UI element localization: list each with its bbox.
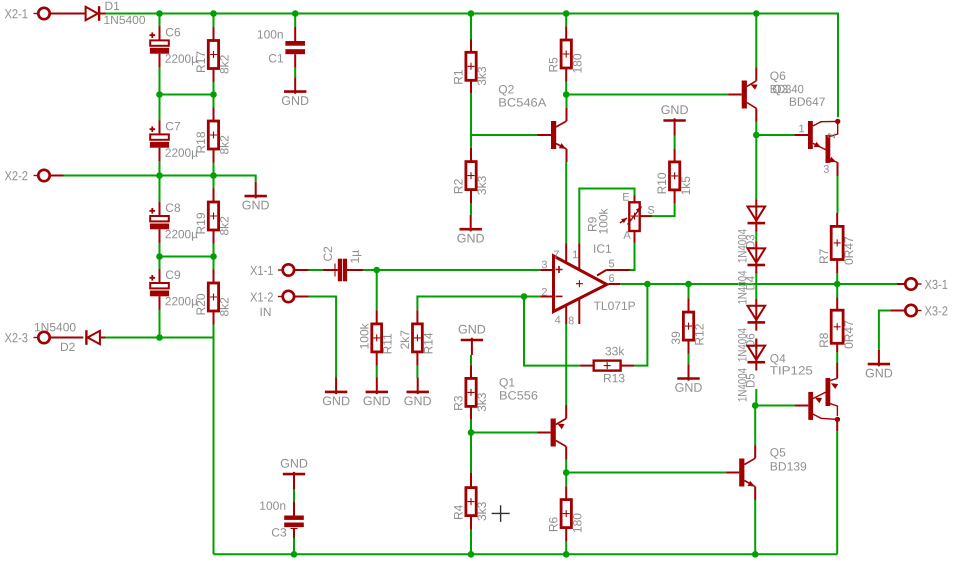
svg-text:3k3: 3k3 [475, 66, 489, 86]
wire X2-3 net [106, 337, 214, 339]
svg-text:R3: R3 [452, 395, 466, 411]
pin lead R2 bot [470, 190, 472, 204]
svg-text:GND: GND [661, 103, 689, 117]
pin lead R6 top [565, 486, 567, 500]
wire rail row2 [160, 94, 214, 96]
pin lead R17 top [213, 27, 215, 41]
wire C3 gnd lead [293, 489, 295, 502]
svg-text:R2: R2 [452, 178, 466, 194]
pin lead Q1 collector [565, 447, 567, 460]
junction [685, 281, 692, 288]
connector pad X1-2 [283, 291, 294, 302]
svg-text:GND: GND [458, 322, 486, 336]
wire R17 top [213, 14, 215, 28]
ground GND (R2) [470, 215, 472, 232]
svg-text:R5: R5 [547, 57, 561, 73]
connector pad X2-2 [38, 170, 49, 181]
wire C6 top [159, 14, 161, 27]
diode D4 [755, 241, 757, 273]
svg-text:BD647: BD647 [789, 95, 826, 109]
resistor R3 [466, 378, 476, 406]
svg-text:R8: R8 [817, 332, 831, 348]
svg-text:R20: R20 [194, 293, 208, 315]
pin lead R10 bot [674, 190, 676, 204]
svg-text:6: 6 [608, 273, 614, 285]
svg-text:2: 2 [541, 287, 547, 299]
junction [156, 172, 163, 179]
wire Q5 emitter down [754, 500, 756, 554]
pin lead C3 top [293, 475, 295, 489]
transistor Q5 (BD139) [739, 459, 744, 487]
svg-text:D5: D5 [746, 373, 758, 388]
diode D6 [755, 299, 757, 331]
resistor R11 [372, 324, 382, 352]
svg-text:X2-2: X2-2 [4, 168, 28, 183]
capacitor C7 [159, 120, 161, 137]
pin lead Q6 collector [755, 108, 757, 121]
wire output net [620, 283, 897, 285]
pin lead R4 bot [470, 516, 472, 530]
wire C7 bottom [159, 161, 161, 175]
svg-text:R13: R13 [603, 371, 625, 385]
wire R11 to GND [376, 366, 378, 379]
wire D6-D5 [755, 339, 757, 350]
svg-text:1N5400: 1N5400 [103, 13, 145, 27]
resistor R17 [208, 41, 218, 69]
svg-text:GND: GND [865, 366, 893, 380]
svg-text:GND: GND [280, 457, 308, 471]
svg-text:8k2: 8k2 [218, 54, 232, 74]
ground GND (R3) [471, 338, 473, 355]
wire C6 bottom [159, 67, 161, 94]
wire X1-1 to C2 [309, 269, 323, 271]
svg-text:A: A [623, 230, 631, 242]
junction [644, 281, 651, 288]
pin lead Q2 collector [566, 108, 568, 121]
pin lead R9 top [634, 196, 636, 203]
pin lead IC1 pin2 [540, 296, 552, 298]
svg-text:X1-2: X1-2 [250, 290, 274, 305]
wire X2-2 rail [64, 176, 256, 182]
wire R9 wiper to R10 [652, 203, 675, 216]
svg-text:BD139: BD139 [770, 460, 807, 474]
wire R5 top [565, 14, 567, 27]
resistor R6 [561, 500, 571, 528]
wire Q2 collector [566, 95, 568, 109]
pin lead R12 top [688, 298, 690, 312]
pin lead IC1 pin5 [597, 270, 630, 276]
svg-text:GND: GND [457, 231, 485, 245]
diode D3 [755, 200, 757, 232]
svg-text:GND: GND [363, 394, 391, 408]
pin lead X1-1 [295, 269, 309, 271]
ground GND (X3-2) [878, 350, 880, 367]
pin lead R20 bot [213, 311, 215, 325]
wire C2 to input node [363, 269, 376, 271]
svg-text:GND: GND [675, 381, 703, 395]
transistor Q4 (TIP125 darlington) [808, 392, 813, 420]
svg-text:Q5: Q5 [770, 446, 786, 460]
junction [156, 10, 163, 17]
junction [156, 253, 163, 260]
junction [563, 551, 570, 558]
wire D3-D4 [755, 230, 757, 241]
junction [210, 253, 217, 260]
capacitor C2 [338, 259, 342, 282]
junction [834, 281, 841, 288]
wire R19-R20 [213, 244, 215, 270]
pin lead C3 gnd2 [293, 502, 295, 516]
ground GND (R10) [674, 118, 676, 135]
pin lead Q2 base [538, 134, 552, 136]
svg-text:C3: C3 [271, 526, 287, 540]
svg-text:BC556: BC556 [499, 389, 538, 403]
wire C9 top [159, 257, 161, 270]
wire diode chain 1 [755, 135, 757, 200]
pin lead Q4 emitter [836, 363, 838, 378]
wire input node to pin3 [377, 269, 541, 271]
junction [752, 402, 759, 409]
wire D5 to Q4 node [755, 389, 757, 406]
pin lead R18 top [213, 108, 215, 122]
wire R14 to GND [416, 366, 418, 379]
svg-text:D4: D4 [746, 275, 758, 290]
junction [373, 267, 380, 274]
svg-text:R11: R11 [381, 333, 395, 354]
pin lead R5 top [565, 27, 567, 41]
pin lead R9 bot [634, 231, 636, 243]
wire R17-R18 [213, 82, 215, 108]
svg-text:R14: R14 [421, 332, 435, 354]
pin lead R12 bot [688, 340, 690, 354]
wire C1 top [294, 14, 296, 28]
svg-text:R12: R12 [693, 323, 707, 345]
svg-text:3k3: 3k3 [475, 392, 489, 412]
wire R6 bottom [565, 541, 567, 554]
svg-text:X2-3: X2-3 [4, 330, 28, 345]
wire R7 to output node [836, 273, 838, 284]
wire IC1 pin4 to Q1 emitter [565, 324, 567, 405]
svg-text:8k2: 8k2 [218, 297, 232, 317]
svg-text:100k: 100k [357, 322, 371, 349]
svg-text:R1: R1 [452, 69, 466, 85]
svg-text:TL071P: TL071P [594, 299, 636, 313]
pin lead R1 bot [470, 80, 472, 94]
pin lead C2 right [347, 269, 363, 271]
pin lead R1 top [470, 40, 472, 54]
resistor R18 [208, 121, 218, 149]
wire X1-2 to GND [309, 297, 337, 379]
pin lead D2 right [100, 337, 106, 339]
pin lead IC1 pin3 [540, 269, 552, 271]
capacitor C8 [159, 202, 161, 220]
svg-text:3k3: 3k3 [475, 175, 489, 195]
wire -V bottom rail [214, 553, 838, 555]
wire node to Q6 base [566, 94, 728, 96]
connector pad X2-3 [38, 332, 49, 343]
wire R10 GND lead [674, 136, 676, 150]
junction [156, 91, 163, 98]
junction [468, 10, 475, 17]
svg-text:R19: R19 [194, 212, 208, 234]
pin lead R14 bot [416, 352, 418, 366]
svg-text:C7: C7 [165, 119, 181, 133]
wire Q3 emitter to R7 [837, 176, 839, 213]
pin lead R2 top [470, 148, 472, 162]
wire R12 to GND [688, 354, 690, 364]
svg-text:IN: IN [259, 305, 271, 319]
svg-text:3k3: 3k3 [475, 501, 489, 521]
pin lead R4 top [470, 473, 472, 488]
transistor Q1 (BC556) [551, 419, 556, 447]
pin lead R8 top [836, 297, 838, 310]
capacitor C3 [284, 516, 304, 520]
wire output node to R8 [836, 284, 838, 297]
ground GND (X2-2) [255, 182, 257, 199]
resistor R14 [413, 324, 423, 352]
svg-text:D1: D1 [104, 0, 120, 13]
wire Q4 collector to rail [836, 431, 838, 554]
trimpot R9 [629, 202, 639, 231]
transistor Q2 [551, 121, 556, 149]
svg-text:GND: GND [242, 198, 270, 212]
pin lead X2-1 to D1 [50, 13, 85, 15]
pin lead R19 bot [213, 230, 215, 244]
svg-text:X2-1: X2-1 [4, 6, 28, 21]
ground GND (R12) [688, 364, 690, 381]
wire R3 bot green [470, 419, 472, 432]
wire C1 to GND [294, 68, 296, 78]
wire node to Q4 base [755, 405, 795, 407]
pin lead R19 top [213, 189, 215, 203]
pin lead Q5 collector [754, 446, 756, 459]
svg-text:1k5: 1k5 [679, 176, 693, 196]
svg-text:C1: C1 [268, 51, 284, 65]
resistor R13 [594, 361, 621, 371]
diode D1 [86, 7, 98, 20]
transistor Q6 (BD340) [742, 81, 747, 109]
wire C8 bottom [159, 243, 161, 257]
svg-text:100n: 100n [259, 499, 286, 513]
ground GND (X1-2) [335, 378, 337, 395]
diode D5 [755, 339, 757, 371]
svg-text:33k: 33k [605, 344, 625, 358]
junction [468, 551, 475, 558]
svg-text:8k2: 8k2 [218, 135, 232, 155]
ground GND (R14) [417, 378, 419, 395]
wire node to Q5 base [566, 472, 726, 474]
svg-text:D2: D2 [60, 340, 76, 354]
junction [563, 469, 570, 476]
wire X3-2 to GND [879, 311, 891, 350]
wire base node to Q2 [471, 134, 538, 136]
wire R2 to GND [470, 203, 472, 215]
svg-text:Q1: Q1 [499, 376, 515, 390]
wire C3 bottom [293, 538, 295, 554]
connector pad X2-1 [38, 8, 49, 19]
pin lead C1 top [294, 27, 296, 41]
resistor R4 [466, 488, 476, 516]
svg-text:R7: R7 [817, 248, 831, 264]
resistor R20 [208, 283, 218, 311]
wire feedback down [524, 297, 580, 366]
svg-text:1N5400: 1N5400 [34, 320, 76, 334]
wire Q6 collector node [755, 122, 757, 136]
wire C7 top [159, 95, 161, 121]
svg-text:39: 39 [669, 331, 683, 345]
svg-text:0R47: 0R47 [842, 320, 856, 349]
pin lead R10 top [674, 149, 676, 162]
resistor R8 [831, 310, 843, 343]
svg-text:X1-1: X1-1 [250, 263, 274, 278]
resistor R7 [831, 226, 843, 259]
svg-text:1µ: 1µ [348, 250, 362, 264]
wire R3 top [470, 355, 472, 365]
pin lead X2-3 to D2 [50, 337, 83, 339]
pin lead R3 top [470, 365, 472, 378]
origin cross [492, 505, 510, 522]
wire Q4 base node to Q5 [754, 406, 756, 446]
wire R3-R4 node [470, 433, 472, 474]
wire rail row4 [160, 256, 214, 258]
junction [753, 132, 760, 139]
resistor R19 [208, 202, 218, 230]
resistor R10 [670, 162, 680, 190]
pin lead C2 left [323, 269, 338, 271]
wire node to Q3 base [756, 134, 794, 136]
svg-text:3: 3 [823, 164, 829, 176]
wire C9 bottom [159, 310, 161, 338]
junction [156, 334, 163, 341]
pin lead D1 right [100, 13, 105, 15]
svg-text:100n: 100n [257, 28, 284, 42]
resistor R5 [561, 40, 571, 68]
pin lead X3-2 [890, 310, 905, 312]
junction [752, 551, 759, 558]
junction [563, 10, 570, 17]
pin lead Q6 base [728, 94, 742, 96]
wire R2 top [470, 135, 472, 148]
junction [753, 10, 760, 17]
capacitor C1 [285, 41, 305, 46]
pin lead Q3 emitter [837, 162, 839, 176]
pin lead IC1 pin7 [565, 244, 567, 264]
wire R14 to pin2 net [417, 297, 540, 311]
svg-text:2k7: 2k7 [398, 330, 412, 350]
svg-text:C6: C6 [165, 25, 181, 39]
wire R5 bottom node [565, 82, 567, 95]
pin lead Q4 base [795, 405, 808, 407]
svg-text:Q6: Q6 [770, 69, 786, 83]
pin lead Q4 collector [836, 419, 838, 431]
junction [521, 293, 528, 300]
wire R8 to Q4 emitter [836, 352, 838, 363]
wire C8 top [159, 176, 161, 203]
ground GND (R11) [376, 378, 378, 395]
wire Q6 emitter top [755, 14, 757, 68]
svg-text:1: 1 [572, 249, 578, 261]
svg-text:4: 4 [555, 314, 561, 326]
capacitor C9 [159, 269, 161, 287]
svg-text:7: 7 [553, 249, 559, 261]
pin lead R7 bot [836, 260, 838, 274]
junction [563, 91, 570, 98]
svg-text:S: S [647, 205, 654, 217]
wire IC1 pin5 to R9-A [630, 243, 635, 271]
svg-text:C8: C8 [165, 201, 181, 215]
wire Q2 emitter to IC1 pin7 [565, 162, 567, 244]
svg-text:X3-2: X3-2 [924, 303, 948, 318]
wire -V vertical [213, 325, 215, 555]
pin lead Q5 base [726, 472, 739, 474]
pin lead R17 bot [213, 69, 215, 83]
pin lead R9 wiper [640, 215, 652, 217]
pin lead Q1 base [538, 432, 551, 434]
svg-text:GND: GND [322, 394, 350, 408]
connector pad X3-1 [905, 278, 916, 289]
svg-text:X3-1: X3-1 [924, 277, 948, 292]
wire R6 top [565, 473, 567, 487]
pin lead R20 top [213, 270, 215, 284]
svg-text:Q2: Q2 [498, 82, 514, 96]
wire input node to R11 [376, 270, 378, 310]
transistor Q3 (BD647 darlington) [808, 121, 813, 149]
ground GND (C3) [293, 472, 295, 489]
pin lead R14 top [416, 310, 418, 324]
svg-text:GND: GND [281, 94, 309, 108]
svg-text:0R47: 0R47 [842, 236, 856, 265]
pin lead R3 bot [470, 406, 472, 419]
svg-text:3: 3 [541, 259, 547, 271]
svg-text:R4: R4 [452, 504, 466, 520]
svg-text:8: 8 [568, 315, 574, 327]
wire IC1 pin1 to R9-E [579, 189, 634, 244]
pin lead R13 left [580, 365, 594, 367]
junction [210, 10, 217, 17]
pin lead Q1 emitter [565, 405, 567, 419]
wire +V top rail [106, 14, 839, 118]
capacitor C6 [159, 26, 161, 44]
pin lead IC1 pin6 [609, 283, 621, 285]
svg-text:C2: C2 [321, 246, 335, 262]
pin lead X1-2 [295, 296, 309, 298]
svg-text:100k: 100k [596, 207, 610, 234]
pin lead IC1 pin1 [578, 244, 580, 271]
resistor R2 [466, 162, 476, 190]
svg-text:R18: R18 [194, 131, 208, 153]
junction [468, 429, 475, 436]
wire Q1 collector node [565, 460, 567, 473]
pin lead C1 bot [294, 54, 296, 67]
junction [210, 91, 217, 98]
pin lead R18 bot [213, 149, 215, 163]
svg-text:180: 180 [570, 513, 584, 533]
pin lead R8 bot [836, 343, 838, 352]
wire R1 top [470, 14, 472, 40]
pin lead R7 top [836, 213, 838, 226]
diode D2 [88, 331, 100, 344]
pin lead Q6 emitter [755, 68, 757, 81]
op-amp IC1 TL071P [554, 256, 607, 312]
ground GND (C1) [294, 77, 296, 94]
resistor R1 [466, 52, 476, 80]
junction [210, 172, 217, 179]
svg-text:5: 5 [608, 258, 614, 270]
svg-text:R17: R17 [194, 51, 208, 73]
svg-text:C9: C9 [165, 268, 181, 282]
svg-text:R10: R10 [655, 172, 669, 194]
svg-text:BC546A: BC546A [498, 96, 546, 110]
